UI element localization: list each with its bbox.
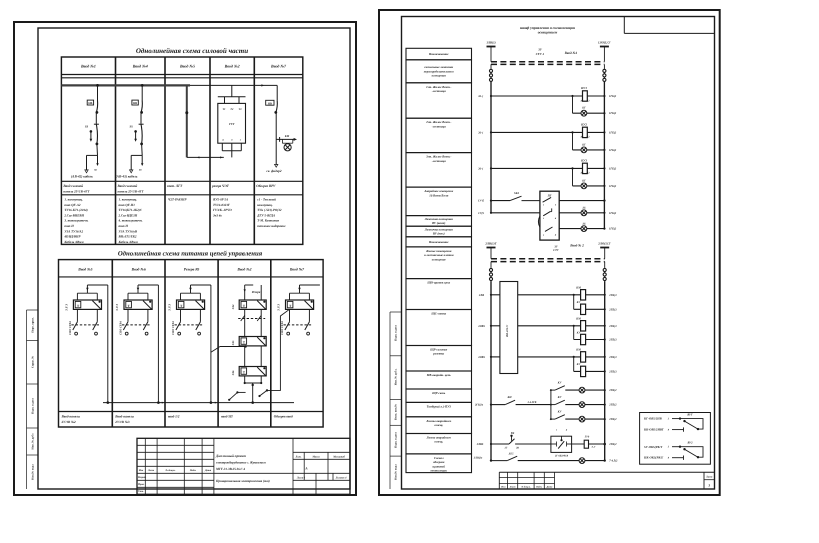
svg-text:Обогрев ввод: Обогрев ввод — [274, 414, 293, 418]
svg-text:2ГБ(2: 2ГБ(2 — [608, 404, 617, 407]
svg-text:ЩО-щиток цеха: ЩО-щиток цеха — [426, 281, 450, 285]
svg-text:ТК: ТК — [511, 432, 516, 435]
svg-text:Подп.: Подп. — [535, 486, 542, 489]
svg-text:Ввод №4: Ввод №4 — [132, 63, 148, 68]
svg-text:Справ. №: Справ. № — [32, 356, 35, 368]
svg-text:ПК-ОК5(РК/Е: ПК-ОК5(РК/Е — [643, 456, 663, 460]
svg-text:СПО СТВ4: СПО СТВ4 — [69, 321, 72, 335]
svg-text:З Л 3: З Л 3 — [168, 304, 172, 312]
svg-text:2ГБ(3: 2ГБ(3 — [608, 356, 617, 359]
svg-text:-лестница: -лестница — [432, 89, 446, 93]
svg-text:Б: Б — [565, 429, 568, 432]
svg-text:Т: Т — [289, 304, 292, 308]
svg-text:Лист: Лист — [509, 486, 516, 489]
svg-text:ВУГ: ВУГ — [686, 413, 693, 416]
svg-text:Б: Б — [554, 233, 557, 236]
svg-text:Обогрев ВРУ: Обогрев ВРУ — [256, 184, 276, 188]
svg-text:Ввод №2: Ввод №2 — [236, 268, 251, 272]
svg-text:Изм: Изм — [138, 469, 144, 472]
svg-text:1ЛО(1)'2': 1ЛО(1)'2' — [598, 40, 611, 44]
svg-text:2ЛВ(2в: 2ЛВ(2в — [473, 456, 483, 459]
svg-text:1ГБ(2: 1ГБ(2 — [609, 167, 617, 170]
svg-text:с1 - Тепловой: с1 - Тепловой — [257, 198, 276, 202]
svg-text:СПО СТВ4: СПО СТВ4 — [120, 321, 123, 335]
svg-text:УЗА ТУ16/уВ: УЗА ТУ16/уВ — [119, 229, 138, 233]
svg-text:освещения: освещения — [432, 74, 447, 78]
svg-text:ВН:АТ1/ЕК2: ВН:АТ1/ЕК2 — [118, 235, 137, 239]
svg-text:2Г: 2Г — [504, 447, 508, 450]
svg-text:в: в — [231, 138, 233, 141]
svg-text:ЯУ5-0Р 5А: ЯУ5-0Р 5А — [212, 198, 228, 202]
svg-text:тип QF-А2: тип QF-А2 — [64, 203, 80, 207]
svg-text:СТУ-1: СТУ-1 — [536, 52, 545, 56]
svg-text:Принципиальная электрическая: Принципиальная электрическая (тм) — [215, 479, 270, 483]
svg-text:а: а — [222, 138, 224, 141]
svg-text:2ЛО(1)'2': 2ЛО(1)'2' — [597, 241, 611, 245]
svg-text:2-4.5ГВ: 2-4.5ГВ — [527, 401, 537, 404]
svg-text:ТУ16-К71-(2014): ТУ16-К71-(2014) — [64, 208, 87, 212]
svg-text:нв: нв — [139, 168, 142, 171]
svg-text:нв: нв — [94, 168, 97, 171]
svg-text:КМ: КМ — [284, 135, 290, 138]
svg-text:Т: Т — [180, 304, 183, 308]
svg-text:КГ-ОВ5/2НВ: КГ-ОВ5/2НВ — [643, 417, 662, 421]
svg-text:Ввод силовой: Ввод силовой — [117, 184, 138, 188]
svg-text:ДГУ 5-ВГДА: ДГУ 5-ВГДА — [256, 213, 275, 217]
svg-text:1ГБ(2: 1ГБ(2 — [609, 228, 617, 231]
svg-text:Однолинейная схема питания це: Однолинейная схема питания цепей управле… — [118, 250, 263, 257]
svg-text:2ГБ(2в: 2ГБ(2в — [474, 404, 484, 407]
svg-text:НВ: НВ — [88, 102, 92, 105]
svg-text:2ГБ(3: 2ГБ(3 — [608, 325, 617, 328]
svg-text:2В: 2В — [515, 447, 519, 450]
svg-text:ЗчЗ 4в: ЗчЗ 4в — [212, 213, 222, 217]
svg-text:МВ-аварийн. цепь: МВ-аварийн. цепь — [426, 373, 452, 377]
svg-text:З Л 3: З Л 3 — [277, 304, 281, 312]
svg-text:Перв. прим.: Перв. прим. — [32, 317, 35, 333]
svg-text:Т: Т — [243, 304, 246, 308]
svg-text:Т: Т — [77, 304, 80, 308]
svg-text:2ЛВ5: 2ЛВ5 — [477, 356, 485, 359]
svg-text:Ввод №1: Ввод №1 — [564, 51, 578, 55]
svg-text:освещением: освещением — [538, 31, 558, 35]
svg-text:2ЛВ5: 2ЛВ5 — [476, 443, 484, 446]
svg-text:2ЛВ: 2ЛВ — [478, 294, 484, 297]
svg-text:Инв.№ подл: Инв.№ подл — [395, 464, 398, 480]
svg-text:Лист: Лист — [147, 469, 154, 472]
svg-text:КМ: КМ — [575, 287, 581, 290]
svg-text:Ч2Т-РА83НР: Ч2Т-РА83НР — [168, 198, 186, 202]
svg-text:КМ: КМ — [575, 349, 581, 352]
svg-text:МГТ-31-3В.25.36.С 4: МГТ-31-3В.25.36.С 4 — [215, 467, 245, 471]
svg-text:Изм: Изм — [500, 486, 506, 489]
svg-text:2ГБ(3: 2ГБ(3 — [608, 294, 617, 297]
svg-text:№ докум.: № докум. — [164, 469, 175, 472]
svg-text:А1-...-А2: А1-...-А2 — [580, 136, 591, 139]
svg-text:5: 5 — [556, 429, 558, 432]
svg-text:Э1-(: Э1-( — [478, 131, 484, 134]
svg-text:ГУЗ/К.-ЗРЧЭ: ГУЗ/К.-ЗРЧЭ — [212, 208, 232, 212]
svg-text:освещ.: освещ. — [434, 440, 443, 444]
svg-text:1ГБ(2: 1ГБ(2 — [609, 185, 617, 188]
svg-text:Ввод №5: Ввод №5 — [179, 63, 195, 68]
svg-text:Масса: Масса — [311, 455, 320, 458]
svg-text:Ввод №2: Ввод №2 — [224, 63, 240, 68]
svg-text:НВ: НВ — [133, 102, 137, 105]
svg-text:5: 5 — [668, 446, 670, 449]
svg-text:Кабель АВмм: Кабель АВмм — [63, 240, 84, 244]
svg-text:Дата: Дата — [204, 469, 212, 472]
svg-text:А1-...-А2: А1-...-А2 — [580, 172, 591, 175]
svg-text:8: 8 — [668, 429, 670, 432]
svg-text:Э1-(: Э1-( — [478, 167, 484, 170]
svg-text:Тамбуры(сл.)-ПУЗ: Тамбуры(сл.)-ПУЗ — [427, 404, 452, 408]
svg-text:Подп. и дата: Подп. и дата — [395, 432, 398, 448]
svg-text:св. фидер2: св. фидер2 — [266, 169, 282, 173]
svg-text:Ввод №5: Ввод №5 — [77, 268, 92, 272]
svg-text:КН: КН — [506, 396, 512, 399]
svg-text:Подп.: Подп. — [189, 469, 197, 472]
svg-text:1ГБ(2: 1ГБ(2 — [609, 95, 617, 98]
svg-text:З Л 3: З Л 3 — [115, 304, 119, 312]
svg-text:2ГБ(2: 2ГБ(2 — [608, 418, 617, 421]
svg-text:розетки: розетки — [432, 352, 444, 356]
svg-text:-лестница: -лестница — [432, 159, 446, 163]
svg-text:А..Г: А..Г — [591, 445, 597, 448]
svg-text:панель 2У/1В-4ГТ: панель 2У/1В-4ГТ — [63, 190, 90, 194]
svg-text:5: 5 — [668, 418, 670, 421]
svg-text:Ввод панели: Ввод панели — [61, 414, 81, 418]
svg-text:КУ: КУ — [557, 411, 563, 414]
svg-text:ФВ-225-У: ФВ-225-У — [506, 324, 509, 337]
svg-text:Ввод № 2: Ввод № 2 — [569, 244, 584, 248]
svg-text:2ЛВ(1)Т: 2ЛВ(1)Т — [484, 241, 496, 245]
svg-text:4. токоограничн.: 4. токоограничн. — [118, 219, 143, 223]
svg-text:1ГБ(2: 1ГБ(2 — [609, 212, 617, 215]
svg-text:Пров.: Пров. — [137, 483, 145, 486]
svg-text:свет. ЛГТ: свет. ЛГТ — [167, 184, 183, 188]
svg-text:3. токоограничн.: 3. токоограничн. — [63, 219, 88, 223]
svg-text:Подп. и дата: Подп. и дата — [395, 325, 398, 341]
svg-text:SБ3: SБ3 — [514, 191, 519, 195]
svg-text:Листов 4: Листов 4 — [335, 477, 347, 480]
svg-text:ПГ: ПГ — [547, 194, 552, 197]
svg-text:2ЛВ5: 2ЛВ5 — [477, 325, 485, 328]
svg-text:2ГБ(3: 2ГБ(3 — [608, 339, 617, 342]
svg-text:2Г-0Б2дЧ1В: 2Г-0Б2дЧ1В — [554, 454, 569, 457]
svg-text:Кабель АВмм: Кабель АВмм — [118, 240, 139, 244]
svg-text:Б: Б — [554, 217, 557, 220]
svg-text:SS: SS — [85, 125, 89, 129]
svg-text:(АВ-43) кабель: (АВ-43) кабель — [116, 175, 138, 179]
svg-text:Ввод панели: Ввод панели — [114, 414, 134, 418]
svg-text:2ГБ(2: 2ГБ(2 — [608, 389, 617, 392]
svg-text:3Л5: 3Л5 — [232, 340, 235, 346]
svg-text:СТУ: СТУ — [553, 249, 560, 252]
svg-text:А1-...-А2: А1-...-А2 — [580, 99, 591, 102]
svg-text:ввод 5П: ввод 5П — [221, 414, 233, 418]
svg-text:вентиляции: вентиляции — [431, 469, 448, 473]
svg-text:Дата: Дата — [546, 486, 554, 489]
svg-text:2У/1В №2: 2У/1В №2 — [61, 420, 77, 424]
svg-text:Т1: Т1 — [223, 108, 227, 111]
svg-text:КУ: КУ — [557, 396, 563, 399]
svg-text:ТУн (-523)-РО(32: ТУн (-523)-РО(32 — [257, 208, 282, 212]
svg-text:1. коммутац.: 1. коммутац. — [64, 198, 83, 202]
svg-text:2.Сш-ВНЕВН: 2.Сш-ВНЕВН — [63, 213, 84, 217]
svg-text:№ докум.: № докум. — [520, 486, 531, 489]
svg-text:ВУ2: ВУ2 — [687, 442, 694, 445]
svg-text:ввод 1/2: ввод 1/2 — [168, 414, 180, 418]
svg-text:1У-Б: 1У-Б — [478, 200, 484, 203]
svg-text:Наименование: Наименование — [428, 240, 449, 244]
svg-text:ЗУ: ЗУ — [537, 48, 542, 52]
svg-text:Ввод №1: Ввод №1 — [80, 63, 96, 68]
svg-text:резерв ЧЭТ: резерв ЧЭТ — [211, 184, 230, 188]
svg-text:ТУ16-8323Т: ТУ16-8323Т — [213, 203, 231, 207]
svg-text:3Л4: 3Л4 — [232, 304, 235, 310]
svg-text:ВУ (тех): ВУ (тех) — [432, 232, 445, 236]
svg-text:Утв.: Утв. — [138, 490, 144, 493]
svg-text:Резерв Ю: Резерв Ю — [184, 268, 200, 272]
svg-text:Подп. и дата: Подп. и дата — [32, 398, 35, 414]
svg-text:1ГБ(2: 1ГБ(2 — [609, 112, 617, 115]
svg-text:1ЛВ(1): 1ЛВ(1) — [486, 40, 495, 44]
svg-text:Инв.№ подл: Инв.№ подл — [32, 464, 35, 480]
svg-text:8: 8 — [668, 457, 670, 460]
svg-text:тип Н: тип Н — [64, 224, 74, 228]
svg-text:ЛБ: ЛБ — [581, 207, 586, 210]
svg-text:КУ1: КУ1 — [580, 86, 587, 90]
svg-text:а: а — [543, 233, 545, 236]
svg-text:Наименование: Наименование — [428, 52, 449, 56]
svg-text:Лит.: Лит. — [295, 455, 302, 458]
svg-text:Т: Т — [243, 370, 246, 374]
svg-text:Масштаб: Масштаб — [332, 455, 345, 458]
svg-text:освещ.: освещ. — [434, 423, 443, 427]
svg-text:Лист: Лист — [705, 475, 712, 478]
svg-text:тип Н: тип Н — [119, 224, 129, 228]
svg-text:шкаф управления и сигнализации: шкаф управления и сигнализации — [520, 26, 575, 30]
svg-text:КУ3: КУ3 — [580, 159, 587, 163]
svg-text:СПО СТВ4: СПО СТВ4 — [281, 321, 284, 335]
svg-text:тип QF-Н1: тип QF-Н1 — [119, 203, 136, 207]
svg-text:Инв. № дубл: Инв. № дубл — [32, 433, 35, 449]
svg-text:5У-ОК5(РК/Т: 5У-ОК5(РК/Т — [644, 445, 662, 449]
svg-text:КГ: КГ — [581, 143, 586, 146]
svg-text:2.Сш-ВДЕЗН: 2.Сш-ВДЕЗН — [118, 213, 138, 217]
svg-text:Т-М. Компания: Т-М. Компания — [257, 219, 279, 223]
svg-text:Ввод №6: Ввод №6 — [131, 268, 146, 272]
svg-text:ТУГ: ТУГ — [229, 122, 235, 126]
svg-text:тепловое надзрение: тепловое надзрение — [257, 224, 286, 228]
svg-text:КУ2: КУ2 — [580, 123, 587, 127]
svg-text:Инв. № дубл.: Инв. № дубл. — [395, 368, 398, 385]
svg-text:Разраб.: Разраб. — [138, 476, 147, 479]
svg-text:ЛБ: ЛБ — [581, 222, 586, 225]
svg-text:SS: SS — [130, 125, 134, 129]
svg-text:1й Вент/Лест: 1й Вент/Лест — [429, 193, 449, 197]
svg-text:7-4.5(2: 7-4.5(2 — [609, 460, 618, 463]
svg-text:Т2: Т2 — [230, 108, 234, 111]
svg-text:ТУ16(К71-2К2)С: ТУ16(К71-2К2)С — [119, 208, 143, 212]
svg-text:КГ: КГ — [581, 107, 586, 110]
svg-text:КМ: КМ — [575, 318, 581, 321]
svg-text:СПО СТВ4: СПО СТВ4 — [172, 321, 175, 335]
svg-text:1: 1 — [543, 204, 544, 207]
svg-text:1ГБ(2: 1ГБ(2 — [609, 131, 617, 134]
svg-text:освещение: освещение — [432, 257, 447, 261]
svg-text:Т3: Т3 — [239, 108, 243, 111]
svg-text:1У(5: 1У(5 — [478, 212, 484, 215]
svg-text:ЩС-связка: ЩС-связка — [430, 312, 446, 316]
svg-text:Дипломный проект: Дипломный проект — [215, 454, 246, 458]
svg-text:Ввод силовой: Ввод силовой — [62, 184, 83, 188]
svg-text:НВ: НВ — [268, 102, 272, 105]
svg-text:3Л6: 3Л6 — [232, 370, 235, 376]
svg-text:2У/1В №3: 2У/1В №3 — [114, 420, 130, 424]
svg-text:2ГБ(2: 2ГБ(2 — [608, 443, 617, 446]
svg-text:З Л 3: З Л 3 — [65, 304, 69, 312]
svg-text:(АВ-42) кабель: (АВ-42) кабель — [71, 175, 93, 179]
svg-text:1ГБ(2: 1ГБ(2 — [609, 149, 617, 152]
svg-text:А: А — [304, 467, 308, 471]
svg-text:2ГБ(3: 2ГБ(3 — [608, 370, 617, 373]
svg-text:панель 2У/1В-4ГТ: панель 2У/1В-4ГТ — [118, 190, 145, 194]
svg-text:5У0: 5У0 — [585, 436, 590, 439]
svg-text:Ввод №7: Ввод №7 — [270, 63, 287, 68]
svg-text:Резерв: Резерв — [252, 290, 261, 294]
svg-text:4Б/ВД/ВНР: 4Б/ВД/ВНР — [63, 235, 80, 239]
svg-text:КК-ОВ5/2ИВТ: КК-ОВ5/2ИВТ — [643, 428, 664, 432]
svg-text:5: 5 — [543, 217, 545, 220]
svg-text:КУ: КУ — [557, 382, 563, 385]
svg-text:ЩР-связь: ЩР-связь — [431, 391, 446, 395]
svg-text:с: с — [240, 138, 242, 141]
svg-text:Однолинейная схема силовой ча: Однолинейная схема силовой части — [136, 47, 248, 55]
svg-text:КГ: КГ — [581, 179, 586, 182]
svg-text:Э1-(: Э1-( — [478, 95, 484, 98]
svg-text:электрооборудование г. Жуковск: электрооборудование г. Жуковского — [215, 460, 266, 464]
svg-text:УЗА ТУ16/А2: УЗА ТУ16/А2 — [64, 229, 83, 233]
svg-text:ВУ (вент): ВУ (вент) — [431, 221, 445, 225]
svg-text:Ввод №7: Ввод №7 — [289, 268, 305, 272]
svg-text:2ГБ(3: 2ГБ(3 — [608, 308, 617, 311]
svg-text:3: 3 — [707, 483, 710, 487]
svg-text:ЛЕ5: ЛЕ5 — [508, 452, 515, 455]
svg-text:Т: Т — [128, 304, 131, 308]
svg-text:Взам. инв.№: Взам. инв.№ — [395, 404, 398, 420]
svg-text:Лист 1: Лист 1 — [296, 477, 306, 480]
svg-text:коммутац.: коммутац. — [257, 203, 273, 207]
svg-text:-лестница: -лестница — [432, 124, 446, 128]
svg-text:Т: Т — [243, 340, 246, 344]
svg-text:3: 3 — [554, 204, 557, 207]
svg-text:1. коммутац.: 1. коммутац. — [119, 198, 138, 202]
